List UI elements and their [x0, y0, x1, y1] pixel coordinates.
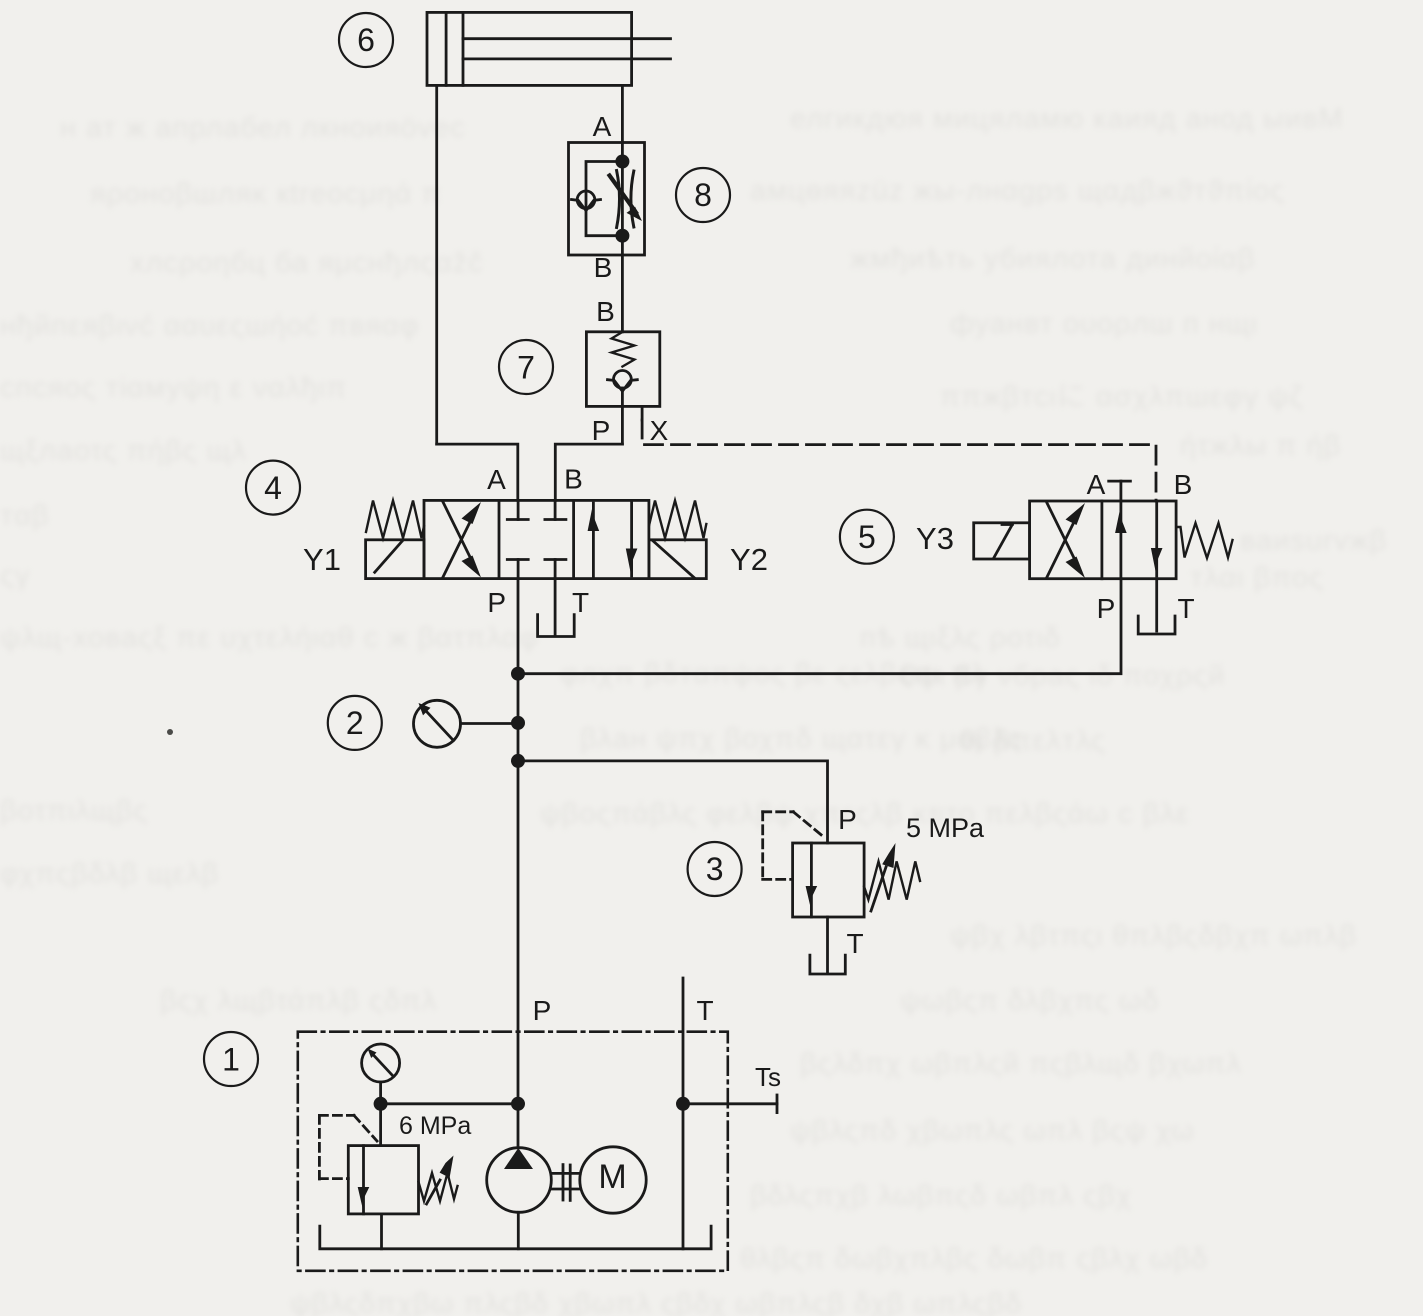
wire T return line	[682, 978, 685, 1249]
svg-text:4: 4	[264, 470, 282, 506]
junction node (valve 8 top)	[615, 155, 629, 169]
wire A: cylinder left to valve 4 port A	[437, 444, 518, 500]
svg-text:P: P	[487, 587, 506, 618]
spring (valve 7)	[612, 332, 635, 367]
motor M	[580, 1147, 646, 1213]
svg-text:3: 3	[706, 851, 724, 887]
power unit 1 boundary (dash-dot)	[298, 1032, 728, 1271]
svg-text:Y2: Y2	[730, 542, 768, 577]
pilot line X (dashed) valve 7 to valve 5 port B	[641, 406, 644, 420]
solenoid Y1	[366, 540, 424, 579]
closed centre ports (valve 4)	[507, 500, 566, 578]
wire gauge 2 to P line	[461, 722, 519, 725]
directional valve 4 body	[424, 500, 649, 578]
adjustment arrow (valve 3)	[871, 843, 896, 911]
label circle 4	[246, 461, 300, 515]
adjustable throttle (valve 8)	[610, 171, 643, 228]
wire valve 3 T to tank	[826, 917, 829, 972]
pressure gauge (power unit)	[362, 1044, 400, 1082]
check valve ball and seat (valve 8)	[572, 191, 601, 211]
svg-text:B: B	[1174, 469, 1193, 500]
tank manifold (power unit)	[320, 1226, 711, 1249]
pilot line (power unit relief, dashed)	[319, 1115, 377, 1179]
svg-text:P: P	[838, 804, 857, 835]
wire to relief valve 3	[518, 761, 828, 843]
junction node gauge 2	[511, 716, 525, 730]
spring left (valve 4)	[366, 501, 424, 539]
label circle 5	[840, 510, 894, 564]
wire P to valve 5	[518, 579, 1121, 674]
parallel arrows right position (valve 4)	[588, 500, 638, 578]
parallel arrows (valve 5)	[1115, 501, 1162, 579]
junction node (gauge branch)	[374, 1097, 388, 1111]
label circle 6	[339, 13, 393, 67]
check valve ball and seat (valve 7)	[608, 371, 638, 407]
svg-text:B: B	[596, 296, 615, 327]
cylinder 6 body	[427, 12, 632, 85]
wire pump suction	[517, 1212, 520, 1249]
check valve 7 enclosure	[586, 332, 659, 407]
svg-text:B: B	[594, 252, 613, 283]
pump unit	[487, 1148, 552, 1213]
svg-text:T: T	[696, 995, 713, 1026]
junction node (valve 8 bottom)	[615, 229, 629, 243]
svg-text:7: 7	[517, 350, 535, 386]
svg-text:X: X	[650, 415, 669, 446]
wire cylinder right port to valve 8	[621, 85, 624, 142]
spring right (valve 4)	[649, 501, 706, 539]
relief valve 3 body	[793, 843, 865, 917]
wire gauge branch to P	[381, 1102, 518, 1105]
svg-text:P: P	[1097, 593, 1116, 624]
junction node (T line)	[676, 1097, 690, 1111]
svg-text:Y3: Y3	[916, 521, 954, 556]
crossed arrows left position (valve 4)	[443, 502, 481, 578]
svg-text:8: 8	[694, 177, 712, 213]
wire through valve 8	[621, 143, 624, 332]
wire valve 5 T to tank	[1155, 579, 1158, 631]
coupling pump-motor	[551, 1165, 580, 1201]
adjustment arrow (power unit relief)	[427, 1156, 454, 1205]
flow control valve 8 enclosure	[569, 143, 645, 256]
svg-text:6 MPa: 6 MPa	[399, 1112, 471, 1140]
label circle 3	[688, 842, 742, 896]
wire valve 4 T to tank	[554, 579, 557, 635]
pilot line X dashed run	[642, 420, 1156, 501]
svg-text:P: P	[533, 995, 552, 1026]
wire relief valve to tank	[380, 1214, 383, 1249]
svg-text:2: 2	[346, 705, 364, 741]
spring right (valve 5)	[1177, 523, 1233, 558]
svg-text:A: A	[487, 464, 506, 495]
tank symbol (valve 5)	[1138, 616, 1175, 634]
svg-text:Y1: Y1	[303, 542, 341, 577]
wire P main vertical	[517, 579, 520, 1148]
wire gauge to manifold	[379, 1082, 382, 1146]
pilot line (valve 3, dashed)	[763, 812, 825, 880]
junction node (P line)	[511, 1097, 525, 1111]
crossed arrows (valve 5)	[1047, 503, 1085, 578]
label circle 1	[204, 1032, 258, 1086]
wire B: valve 7 P to valve 4 port B	[555, 444, 622, 500]
label circle 2	[328, 696, 382, 750]
svg-text:5: 5	[858, 519, 876, 555]
directional valve 5 body	[1030, 501, 1177, 579]
svg-text:Ts: Ts	[755, 1062, 781, 1092]
relief valve (power unit) body	[348, 1146, 418, 1214]
wire valve 7 P down	[621, 406, 624, 444]
cylinder 6 piston rod	[463, 39, 671, 59]
label circle 8	[676, 168, 730, 222]
spring (valve 3)	[864, 861, 920, 899]
wire cylinder left port down	[435, 85, 438, 444]
solenoid Y2	[649, 540, 706, 579]
blocked port A (valve 5)	[1109, 481, 1131, 501]
label circle 7	[499, 340, 553, 394]
svg-text:P: P	[592, 415, 611, 446]
junction node P to valve 5	[511, 667, 525, 681]
tank symbol (valve 4)	[538, 615, 575, 637]
svg-text:1: 1	[222, 1042, 240, 1078]
pressure gauge 2	[414, 700, 461, 747]
svg-text:A: A	[593, 111, 612, 142]
junction node to relief valve 3	[511, 754, 525, 768]
spring (power unit relief)	[419, 1173, 458, 1201]
svg-text:A: A	[1087, 469, 1106, 500]
wire Ts test port	[683, 1095, 777, 1113]
svg-text:5 MPa: 5 MPa	[906, 813, 985, 843]
svg-text:M: M	[598, 1158, 626, 1196]
bypass wire with check valve (valve 8)	[586, 162, 622, 236]
svg-text:T: T	[846, 928, 863, 959]
svg-text:B: B	[564, 464, 583, 495]
svg-text:T: T	[1177, 593, 1194, 624]
svg-text:6: 6	[357, 22, 375, 58]
solenoid Y3	[974, 523, 1030, 559]
tank symbol (valve 3)	[810, 955, 845, 974]
